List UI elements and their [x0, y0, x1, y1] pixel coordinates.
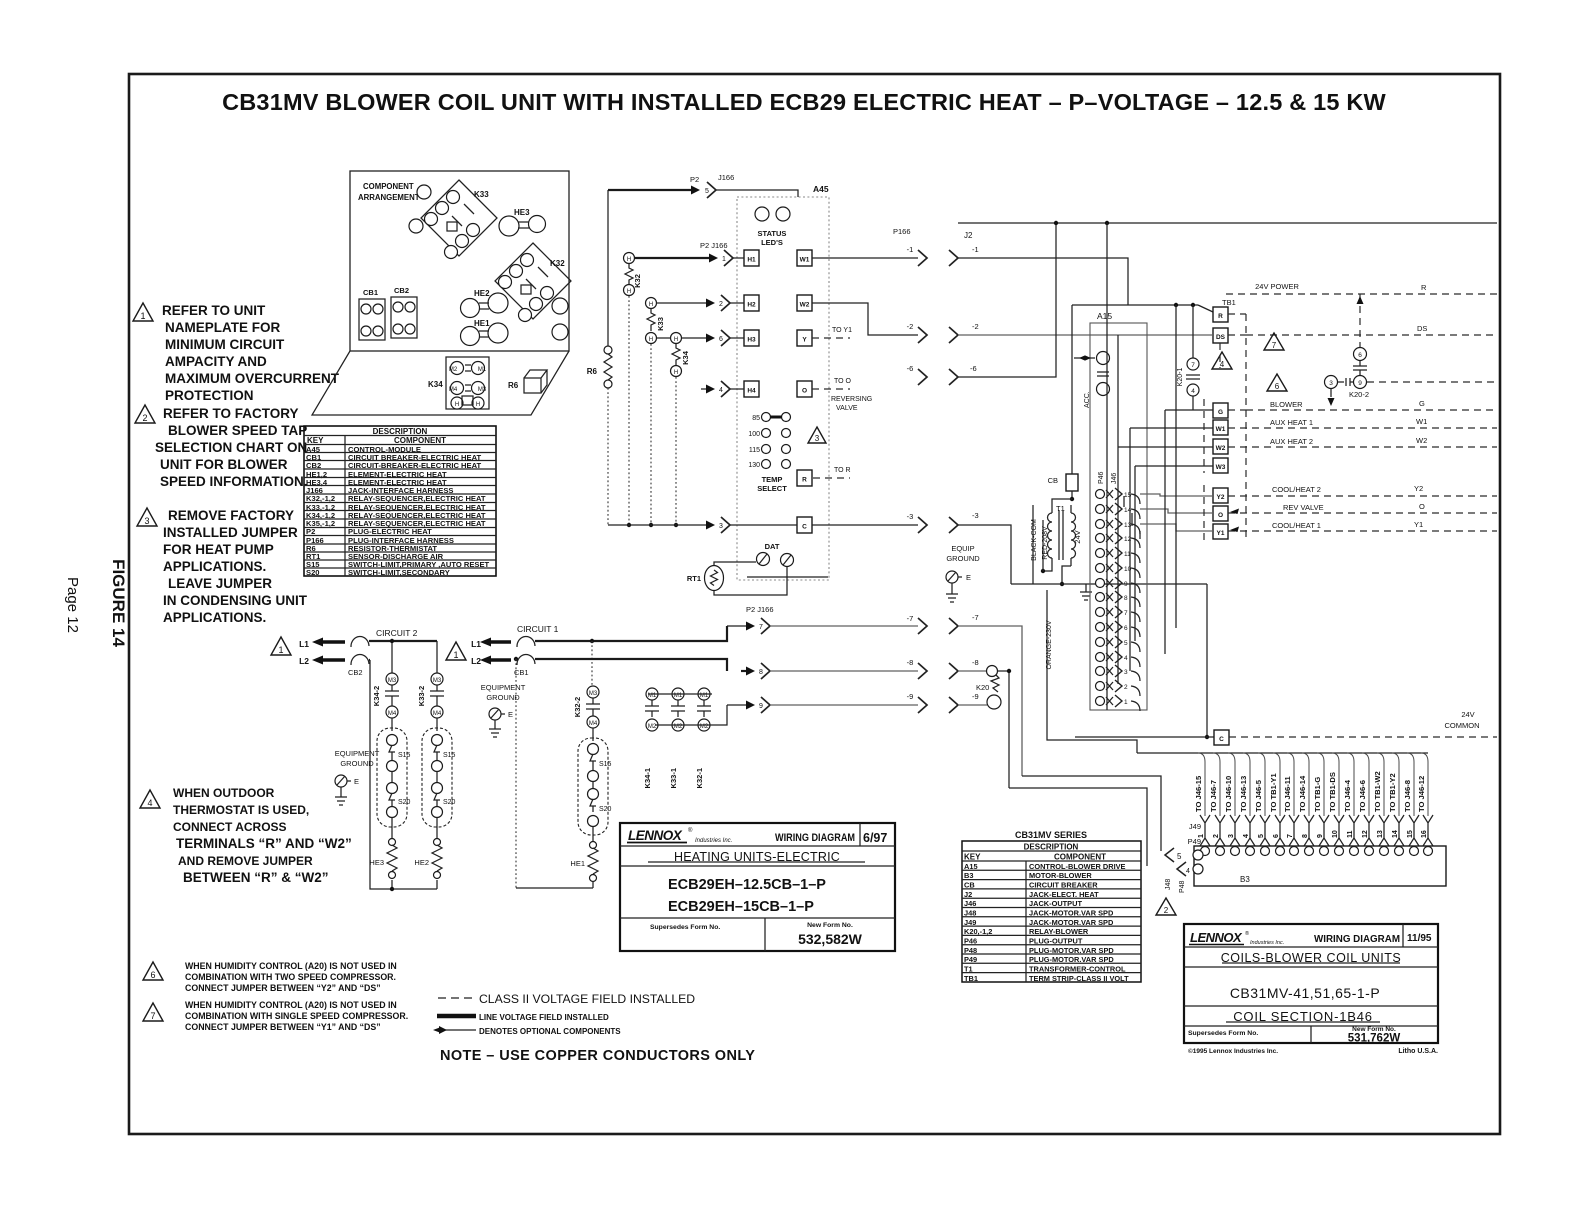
- sequencer contact K32-2: [573, 686, 600, 741]
- motor B3 box: [1188, 822, 1446, 886]
- svg-text:LEAVE JUMPER: LEAVE JUMPER: [168, 576, 272, 591]
- svg-text:10: 10: [1124, 566, 1132, 573]
- common wire down to C terminal: [1075, 584, 1214, 739]
- motor lead TO J46-5 pin 5: [1254, 753, 1270, 856]
- svg-text:TO J46-5: TO J46-5: [1254, 779, 1263, 812]
- svg-text:4: 4: [1191, 388, 1195, 395]
- limit switches S15 S20 (HE2 string): [422, 728, 456, 827]
- svg-text:J2: J2: [964, 890, 972, 899]
- svg-text:E: E: [508, 710, 513, 719]
- J46 pin 9: [1096, 577, 1141, 593]
- svg-text:APPLICATIONS.: APPLICATIONS.: [163, 559, 266, 574]
- svg-text:THERMOSTAT IS USED,: THERMOSTAT IS USED,: [173, 803, 309, 817]
- svg-text:3: 3: [144, 516, 149, 526]
- svg-text:9: 9: [1358, 380, 1362, 387]
- note triangle 7 (field): [1264, 333, 1284, 350]
- motor lead TO TB1-G pin 9: [1313, 753, 1329, 856]
- svg-text:J2: J2: [964, 231, 973, 240]
- svg-text:REFER TO FACTORY: REFER TO FACTORY: [163, 406, 299, 421]
- svg-text:S20: S20: [443, 799, 456, 806]
- svg-text:H: H: [649, 302, 653, 308]
- equipment ground ckt2: [335, 749, 380, 805]
- svg-text:L2: L2: [299, 656, 309, 666]
- svg-text:TEMP: TEMP: [762, 475, 783, 484]
- note triangle 6: [143, 962, 163, 980]
- svg-text:1: 1: [140, 311, 145, 321]
- svg-text:COMBINATION WITH SINGLE SPEED: COMBINATION WITH SINGLE SPEED COMPRESSOR…: [185, 1011, 408, 1021]
- svg-text:COILS-BLOWER COIL UNITS: COILS-BLOWER COIL UNITS: [1221, 951, 1402, 965]
- svg-text:EQUIP: EQUIP: [951, 544, 974, 553]
- svg-text:11/95: 11/95: [1407, 933, 1432, 944]
- svg-text:5: 5: [1124, 640, 1128, 647]
- note triangle 3: [137, 508, 157, 526]
- svg-text:RELAY-SEQUENCER,ELECTRIC HEAT: RELAY-SEQUENCER,ELECTRIC HEAT: [348, 494, 486, 503]
- terminal W1: [1130, 417, 1497, 435]
- svg-text:14: 14: [1392, 830, 1399, 838]
- svg-text:TO J46-13: TO J46-13: [1239, 776, 1248, 812]
- svg-text:DENOTES OPTIONAL COMPONENTS: DENOTES OPTIONAL COMPONENTS: [479, 1027, 621, 1036]
- svg-text:Y2: Y2: [1414, 484, 1423, 493]
- svg-text:J46: J46: [964, 899, 976, 908]
- svg-text:LED'S: LED'S: [761, 238, 783, 247]
- svg-text:WIRING DIAGRAM: WIRING DIAGRAM: [1314, 933, 1400, 945]
- svg-text:W1: W1: [1416, 417, 1427, 426]
- svg-text:W2: W2: [1416, 436, 1427, 445]
- J46 pin 10: [1096, 562, 1141, 578]
- terminal W2: [797, 295, 812, 311]
- svg-text:CB: CB: [964, 881, 975, 890]
- svg-text:TO J46-8: TO J46-8: [1403, 780, 1412, 812]
- svg-text:DESCRIPTION: DESCRIPTION: [373, 427, 428, 436]
- svg-text:HEATING UNITS-ELECTRIC: HEATING UNITS-ELECTRIC: [674, 850, 840, 864]
- svg-text:W1: W1: [800, 257, 810, 264]
- svg-text:3: 3: [719, 523, 723, 530]
- svg-text:6/97: 6/97: [863, 831, 887, 845]
- svg-text:M3: M3: [433, 678, 442, 684]
- 24v feed line top: [958, 221, 1497, 225]
- svg-text:BLOWER: BLOWER: [1270, 400, 1303, 409]
- terminal O: [797, 381, 812, 397]
- svg-text:A15: A15: [1097, 311, 1112, 321]
- svg-text:11: 11: [1347, 830, 1354, 838]
- svg-text:PLUG-MOTOR.VAR SPD: PLUG-MOTOR.VAR SPD: [1029, 955, 1114, 964]
- svg-text:WHEN HUMIDITY CONTROL (A20) IS: WHEN HUMIDITY CONTROL (A20) IS NOT USED …: [185, 1000, 397, 1010]
- svg-text:CIRCUIT BREAKER: CIRCUIT BREAKER: [1029, 881, 1098, 890]
- wire -1 row: [812, 245, 1128, 305]
- svg-text:©1995 Lennox Industries Inc.: ©1995 Lennox Industries Inc.: [1188, 1047, 1278, 1055]
- wire -6 row: [907, 223, 1056, 385]
- relay contact K33-1: [669, 688, 685, 788]
- svg-text:LINE VOLTAGE FIELD INSTALLED: LINE VOLTAGE FIELD INSTALLED: [479, 1013, 609, 1022]
- svg-text:-2: -2: [907, 322, 914, 331]
- svg-text:J49: J49: [1189, 822, 1201, 831]
- svg-text:DAT: DAT: [765, 542, 780, 551]
- resistor R6 (thermistor): [587, 190, 612, 525]
- J46 pin 11: [1096, 547, 1141, 563]
- svg-text:Supersedes Form No.: Supersedes Form No.: [650, 924, 720, 931]
- svg-text:115: 115: [749, 447, 760, 454]
- element HE2 (component view): [461, 289, 509, 318]
- svg-text:REVERSING: REVERSING: [831, 396, 872, 403]
- sensor DAT: [757, 542, 794, 567]
- svg-text:-2: -2: [972, 322, 979, 331]
- terminal H4: [744, 381, 759, 397]
- svg-text:CB1: CB1: [363, 288, 378, 297]
- L2 arrow ckt2: [299, 656, 345, 667]
- motor lead TO J46-6 pin 12: [1358, 753, 1374, 856]
- J46 pin 8: [1096, 591, 1141, 607]
- svg-text:W1: W1: [1216, 426, 1226, 433]
- relay K34 (component view): [428, 357, 489, 409]
- svg-text:CIRCUIT 1: CIRCUIT 1: [517, 624, 559, 634]
- svg-text:DESCRIPTION: DESCRIPTION: [1024, 843, 1079, 852]
- svg-text:ARRANGEMENT: ARRANGEMENT: [358, 193, 420, 202]
- terminal W1: [797, 250, 812, 266]
- svg-text:G: G: [1218, 409, 1223, 416]
- wire H1 row: [634, 241, 744, 266]
- svg-text:6: 6: [1124, 625, 1128, 632]
- svg-text:M1: M1: [478, 367, 487, 373]
- relay contact K20-2: [1325, 294, 1498, 406]
- terminal H2: [744, 295, 759, 311]
- svg-text:M4: M4: [449, 387, 458, 393]
- motor lead TO J46-10 pin 3: [1224, 753, 1240, 856]
- svg-text:C: C: [802, 524, 807, 531]
- svg-text:CONNECT JUMPER BETWEEN “Y2” AN: CONNECT JUMPER BETWEEN “Y2” AND “DS”: [185, 983, 381, 993]
- J46 pin 1: [1096, 695, 1141, 711]
- terminal H3: [744, 330, 759, 346]
- acc terminals: [1074, 352, 1110, 409]
- C wire row: [608, 511, 1011, 584]
- terminal Y2: [1140, 484, 1497, 503]
- element HE1 (component view): [461, 319, 509, 346]
- svg-text:TO O: TO O: [834, 378, 852, 385]
- motor lead TO TB1-DS pin 10: [1328, 753, 1344, 856]
- svg-text:Industries Inc.: Industries Inc.: [1250, 940, 1284, 946]
- svg-text:3: 3: [815, 434, 820, 443]
- svg-text:H1: H1: [747, 257, 756, 264]
- svg-text:TO J46-11: TO J46-11: [1283, 775, 1292, 812]
- svg-text:-3: -3: [907, 512, 914, 521]
- svg-text:A15: A15: [964, 862, 978, 871]
- note triangle 2 (motor): [1156, 898, 1176, 915]
- svg-text:B3: B3: [964, 871, 973, 880]
- svg-text:JACK-MOTOR.VAR SPD: JACK-MOTOR.VAR SPD: [1029, 918, 1114, 927]
- svg-text:TO Y1: TO Y1: [832, 327, 852, 334]
- wire -7 row: [727, 605, 1022, 776]
- sequencer contact K34-2: [372, 673, 399, 731]
- svg-text:532,582W: 532,582W: [798, 931, 863, 947]
- svg-text:R: R: [1421, 283, 1427, 292]
- svg-text:K34-1: K34-1: [643, 768, 652, 788]
- svg-text:TERM STRIP-CLASS II VOLT: TERM STRIP-CLASS II VOLT: [1029, 974, 1129, 983]
- svg-text:SWITCH-LIMIT,SECONDARY: SWITCH-LIMIT,SECONDARY: [348, 568, 450, 577]
- svg-text:ORANGE-230V: ORANGE-230V: [1046, 620, 1053, 669]
- heat element HE2: [414, 817, 442, 879]
- svg-text:9: 9: [759, 703, 763, 710]
- L1 arrow ckt2: [299, 638, 345, 650]
- wire H2 row: [656, 295, 744, 311]
- svg-text:H: H: [476, 402, 480, 408]
- svg-text:TB1: TB1: [964, 974, 978, 983]
- svg-text:4: 4: [147, 798, 152, 808]
- svg-text:TO TB1-G: TO TB1-G: [1313, 777, 1322, 812]
- svg-text:531,762W: 531,762W: [1348, 1033, 1401, 1045]
- terminal C (24v common): [1214, 710, 1497, 745]
- svg-text:RELAY-BLOWER: RELAY-BLOWER: [1029, 927, 1089, 936]
- svg-text:-7: -7: [907, 614, 914, 623]
- svg-text:B3: B3: [1240, 875, 1250, 884]
- CB31MV series table: [962, 830, 1141, 982]
- svg-text:P46: P46: [964, 937, 977, 946]
- svg-text:EQUIPMENT: EQUIPMENT: [335, 749, 380, 758]
- svg-text:HE2: HE2: [474, 289, 490, 298]
- svg-text:-8: -8: [907, 658, 914, 667]
- svg-text:4: 4: [719, 387, 723, 394]
- note triangle 4 (field): [1212, 352, 1232, 369]
- svg-text:5: 5: [1258, 834, 1265, 838]
- motor lead TO TB1-Y1 pin 6: [1269, 753, 1285, 856]
- svg-text:K32: K32: [550, 259, 565, 268]
- equipment ground ckt1: [481, 683, 526, 737]
- stub TO O / reversing valve: [812, 378, 872, 412]
- breaker CB2 (component view): [391, 286, 417, 338]
- svg-text:Y2: Y2: [1217, 494, 1225, 501]
- svg-text:1: 1: [453, 650, 458, 660]
- equip ground (A45 side): [946, 544, 980, 602]
- svg-text:H2: H2: [747, 302, 756, 309]
- svg-text:15: 15: [1124, 492, 1132, 499]
- svg-text:H3: H3: [747, 337, 756, 344]
- svg-text:H: H: [455, 402, 459, 408]
- svg-text:COMBINATION WITH TWO SPEED COM: COMBINATION WITH TWO SPEED COMPRESSOR.: [185, 972, 396, 982]
- svg-text:K20-1: K20-1: [1177, 368, 1184, 387]
- svg-text:6: 6: [1273, 834, 1280, 838]
- note triangle 2: [135, 405, 155, 423]
- svg-text:CONTROL-BLOWER DRIVE: CONTROL-BLOWER DRIVE: [1029, 862, 1126, 871]
- relay contact K34-1: [643, 688, 659, 788]
- heat element HE3: [369, 817, 397, 879]
- transformer T1: [1011, 499, 1207, 753]
- svg-text:Y1: Y1: [1414, 520, 1423, 529]
- breaker CB2: [348, 636, 369, 677]
- svg-text:P48: P48: [964, 946, 977, 955]
- resistor R6 (component view 3d): [508, 370, 547, 393]
- svg-text:HE1: HE1: [474, 319, 490, 328]
- svg-text:COMPONENT: COMPONENT: [363, 182, 414, 191]
- svg-text:P46: P46: [1098, 471, 1105, 484]
- svg-text:-8: -8: [972, 658, 979, 667]
- svg-text:S15: S15: [398, 752, 411, 759]
- circuit 2 label and feeders: [369, 628, 437, 891]
- svg-text:NOTE – USE COPPER CONDUCTORS O: NOTE – USE COPPER CONDUCTORS ONLY: [440, 1048, 755, 1064]
- svg-text:BETWEEN “R” & “W2”: BETWEEN “R” & “W2”: [183, 870, 329, 885]
- svg-text:2: 2: [1213, 834, 1220, 838]
- jack J46 / plug P46 bank: [1098, 471, 1118, 484]
- wire -9 row: [727, 692, 987, 713]
- svg-text:CLASS II VOLTAGE FIELD INSTALL: CLASS II VOLTAGE FIELD INSTALLED: [479, 992, 695, 1006]
- svg-text:CB31MV-41,51,65-1-P: CB31MV-41,51,65-1-P: [1230, 985, 1380, 1001]
- note triangle 6 (field): [1267, 374, 1287, 391]
- svg-text:GROUND: GROUND: [340, 759, 374, 768]
- svg-text:24V: 24V: [1461, 710, 1474, 719]
- svg-text:L1: L1: [299, 639, 309, 649]
- svg-text:SPEED INFORMATION.: SPEED INFORMATION.: [160, 474, 308, 489]
- svg-text:HE2: HE2: [414, 858, 429, 867]
- svg-text:TO R: TO R: [834, 467, 851, 474]
- svg-text:P2: P2: [690, 175, 699, 184]
- svg-text:K34: K34: [428, 380, 443, 389]
- svg-text:ECB29EH–15CB–1–P: ECB29EH–15CB–1–P: [668, 899, 814, 915]
- svg-text:A45: A45: [813, 184, 829, 194]
- svg-text:2: 2: [719, 301, 723, 308]
- svg-text:®: ®: [688, 827, 693, 834]
- svg-text:AUX HEAT 2: AUX HEAT 2: [1270, 437, 1313, 446]
- blower control A15 box: [1072, 303, 1213, 710]
- svg-text:O: O: [802, 388, 807, 395]
- svg-text:L1: L1: [471, 639, 481, 649]
- limit switches S15 S20 (HE1 string): [578, 738, 612, 835]
- relay contact K20-1: [1177, 305, 1200, 410]
- wire bundle verticals (A15): [1107, 223, 1176, 710]
- svg-text:New Form No.: New Form No.: [807, 922, 853, 929]
- svg-text:E: E: [966, 573, 971, 582]
- svg-text:7: 7: [1287, 834, 1294, 838]
- svg-text:BLACK-COM: BLACK-COM: [1031, 519, 1038, 561]
- motor lead TO J46-4 pin 11: [1343, 753, 1359, 856]
- svg-text:7: 7: [1124, 610, 1128, 617]
- svg-text:LENNOX: LENNOX: [628, 828, 683, 843]
- breaker CB1: [514, 636, 535, 677]
- svg-text:KEY: KEY: [307, 436, 324, 445]
- svg-text:9: 9: [1317, 834, 1324, 838]
- svg-text:-1: -1: [907, 245, 914, 254]
- svg-text:L2: L2: [471, 656, 481, 666]
- svg-text:4: 4: [1243, 834, 1250, 838]
- L1 arrow ckt1: [471, 638, 511, 650]
- terminal strip TB1: R: [1213, 298, 1246, 322]
- svg-text:PLUG-OUTPUT: PLUG-OUTPUT: [1029, 937, 1083, 946]
- terminal R: [797, 470, 812, 486]
- J46 pin 14: [1096, 503, 1141, 519]
- svg-text:2: 2: [1124, 684, 1128, 691]
- svg-text:TO TB1-W2: TO TB1-W2: [1373, 771, 1382, 812]
- svg-text:K33-1: K33-1: [669, 768, 678, 788]
- svg-text:S15: S15: [599, 761, 612, 768]
- svg-text:11: 11: [1124, 551, 1131, 558]
- svg-text:REV VALVE: REV VALVE: [1283, 503, 1324, 512]
- svg-text:Y1: Y1: [1217, 530, 1225, 537]
- svg-text:K33: K33: [656, 317, 665, 331]
- svg-text:VALVE: VALVE: [836, 405, 858, 412]
- svg-text:S20: S20: [599, 806, 612, 813]
- svg-text:TO J46-15: TO J46-15: [1194, 775, 1203, 812]
- svg-text:3: 3: [1329, 380, 1333, 387]
- svg-text:INSTALLED JUMPER: INSTALLED JUMPER: [163, 525, 298, 540]
- relay K32 (component view): [495, 243, 571, 322]
- motor lead TO J46-12 pin 16: [1417, 753, 1433, 856]
- svg-text:TO J46-6: TO J46-6: [1358, 780, 1367, 812]
- svg-text:R: R: [1218, 313, 1223, 320]
- jumper arrow at O: [1230, 509, 1239, 515]
- svg-text:PROTECTION: PROTECTION: [165, 388, 254, 403]
- svg-text:FOR HEAT PUMP: FOR HEAT PUMP: [163, 542, 274, 557]
- svg-text:TO TB1-Y2: TO TB1-Y2: [1388, 773, 1397, 812]
- note triangle 1: [133, 303, 153, 321]
- svg-text:-3: -3: [972, 511, 979, 520]
- terminal Y: [797, 330, 812, 346]
- svg-text:1: 1: [722, 256, 726, 263]
- svg-text:COMPONENT: COMPONENT: [1054, 853, 1106, 862]
- svg-text:R6: R6: [587, 367, 598, 376]
- svg-text:K32-2: K32-2: [573, 697, 582, 717]
- svg-text:12: 12: [1362, 830, 1369, 838]
- relay contact K32-1: [695, 688, 711, 788]
- limit switches S15 S20 (HE3 string): [377, 728, 411, 827]
- svg-text:SELECTION CHART ON: SELECTION CHART ON: [155, 440, 307, 455]
- svg-text:-9: -9: [907, 692, 914, 701]
- J46 pin 4: [1096, 651, 1141, 667]
- svg-text:M2: M2: [449, 367, 458, 373]
- motor lead TO J46-15 pin 1: [1194, 753, 1210, 856]
- M1 feeder: [648, 693, 712, 695]
- svg-text:TERMINALS “R” AND “W2”: TERMINALS “R” AND “W2”: [176, 836, 352, 851]
- breaker CB1 (component view): [359, 288, 385, 340]
- J46 pin 6: [1096, 621, 1141, 637]
- wire -2 row: [812, 303, 1212, 343]
- svg-text:Supersedes Form No.: Supersedes Form No.: [1188, 1030, 1258, 1037]
- relay coil K33: [646, 298, 666, 344]
- svg-text:®: ®: [1245, 930, 1249, 937]
- svg-text:FIGURE 14: FIGURE 14: [109, 559, 128, 647]
- svg-text:4: 4: [1186, 868, 1190, 875]
- relay drop wires to C line: [629, 296, 676, 525]
- svg-text:JACK-OUTPUT: JACK-OUTPUT: [1029, 899, 1082, 908]
- svg-text:RED-208V: RED-208V: [1042, 526, 1049, 560]
- motor lead TO J46-14 pin 8: [1298, 753, 1314, 856]
- wire P2-5 top: [608, 173, 798, 198]
- J46 pin 2: [1096, 680, 1141, 696]
- svg-text:MAXIMUM OVERCURRENT: MAXIMUM OVERCURRENT: [165, 371, 340, 386]
- relay coil K32: [624, 253, 643, 296]
- svg-text:MOTOR-BLOWER: MOTOR-BLOWER: [1029, 871, 1092, 880]
- svg-text:EQUIPMENT: EQUIPMENT: [481, 683, 526, 692]
- element HE3 (component view): [499, 208, 546, 236]
- note triangle 1 (ckt1): [446, 642, 466, 660]
- motor lead TO J46-13 pin 4: [1239, 753, 1255, 856]
- svg-text:PLUG-MOTOR.VAR SPD: PLUG-MOTOR.VAR SPD: [1029, 946, 1114, 955]
- legend class II voltage line: [438, 992, 695, 1006]
- motor lead TO TB1-Y2 pin 14: [1388, 753, 1404, 856]
- svg-text:Y: Y: [802, 337, 807, 344]
- motor lead TO J46-8 pin 15: [1403, 753, 1419, 856]
- svg-text:K32-1: K32-1: [695, 768, 704, 788]
- svg-text:100: 100: [748, 431, 760, 438]
- svg-text:1: 1: [278, 645, 283, 655]
- relay K33 (component view): [421, 180, 497, 259]
- svg-text:16: 16: [1421, 830, 1428, 838]
- svg-text:RT1: RT1: [687, 574, 701, 583]
- svg-text:PLUG-ELECTRIC HEAT: PLUG-ELECTRIC HEAT: [348, 527, 432, 536]
- terminal O: [1140, 502, 1497, 521]
- svg-text:ACC.: ACC.: [1084, 391, 1091, 408]
- svg-text:J46: J46: [1111, 473, 1118, 484]
- terminal W2: [1118, 436, 1497, 454]
- svg-text:GROUND: GROUND: [486, 693, 520, 702]
- svg-text:M4: M4: [388, 711, 397, 717]
- svg-text:MINIMUM CIRCUIT: MINIMUM CIRCUIT: [165, 337, 285, 352]
- svg-text:AND REMOVE JUMPER: AND REMOVE JUMPER: [178, 854, 313, 868]
